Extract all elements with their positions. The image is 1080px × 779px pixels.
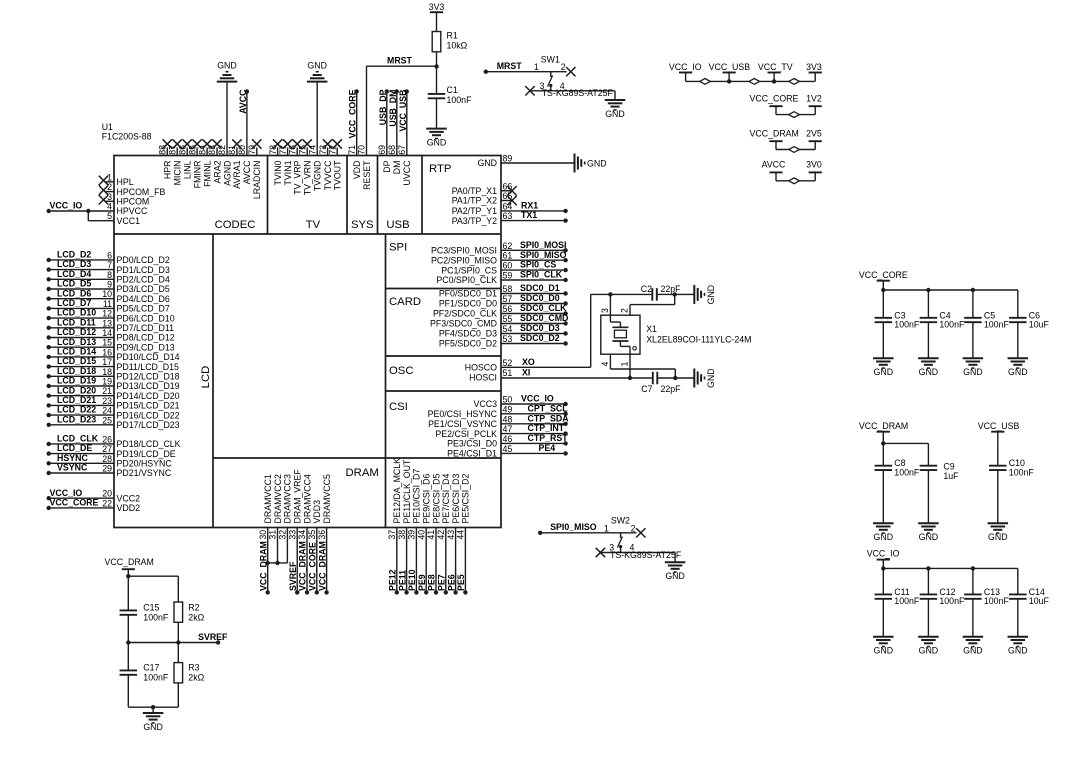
svg-text:DRAM_VREF: DRAM_VREF (293, 469, 303, 524)
svg-text:XL2EL89COI-111YLC-24M: XL2EL89COI-111YLC-24M (646, 334, 751, 344)
svg-text:41: 41 (426, 530, 436, 540)
ground below C1 (426, 129, 447, 148)
svg-text:LCD: LCD (200, 366, 212, 389)
block label TV (306, 219, 321, 231)
pin 23 PD15/LCD_D21 / net LCD_D21 wire (47, 395, 180, 411)
svg-text:PD17/LCD_D23: PD17/LCD_D23 (117, 420, 180, 430)
pin 88 HPR (top) (158, 139, 173, 179)
svg-text:100nF: 100nF (143, 673, 169, 683)
svg-text:DM: DM (392, 161, 402, 175)
svg-text:VCC_CORE: VCC_CORE (750, 93, 799, 103)
svg-text:43: 43 (446, 530, 456, 540)
svg-text:VDD2: VDD2 (117, 503, 141, 513)
svg-text:18: 18 (102, 367, 112, 377)
svg-text:VCC_CORE: VCC_CORE (308, 542, 318, 591)
svg-text:LCD_D14: LCD_D14 (57, 347, 96, 357)
pin 57 PF1/SDC0_D0 (right) (439, 293, 568, 309)
svg-text:PF5/SDC0_D2: PF5/SDC0_D2 (439, 339, 497, 349)
svg-text:AVRA1: AVRA1 (232, 160, 242, 188)
capacitor C8 100nF (875, 443, 920, 523)
svg-text:LCD_D20: LCD_D20 (57, 385, 96, 395)
svg-text:82: 82 (217, 145, 227, 155)
svg-text:57: 57 (503, 294, 513, 304)
svg-text:3: 3 (107, 192, 112, 202)
capacitor C15 100nF (120, 603, 169, 643)
switch SW2 TS-KG89S-AT25F (596, 516, 682, 563)
pin 40 PE9/CSI_D6 (bottom) (416, 474, 431, 595)
svg-text:SPI0_MOSI: SPI0_MOSI (520, 240, 566, 250)
power symbol VCC_IO (tie row) (669, 62, 702, 81)
svg-text:100nF: 100nF (894, 596, 920, 606)
X1 pin 3 wire (600, 294, 610, 315)
svg-text:60: 60 (503, 261, 513, 271)
capacitor C4 100nF (920, 290, 965, 358)
net SVREF wire (126, 632, 228, 645)
pin 26 PD18/LCD_CLK / net LCD_CLK wire (47, 434, 181, 450)
pin 78 TVIN0 (top) (268, 139, 283, 185)
svg-text:FMINL: FMINL (202, 160, 212, 186)
VCC_DRAM rail wire (881, 441, 928, 445)
power symbol VCC_DRAM (divider) (105, 557, 154, 576)
svg-text:SDC0_D3: SDC0_D3 (520, 323, 560, 333)
svg-text:83: 83 (207, 145, 217, 155)
svg-text:LCD_D13: LCD_D13 (57, 337, 96, 347)
svg-text:PA0/TP_X1: PA0/TP_X1 (452, 186, 497, 196)
crystal X1 XL2EL89COI-111YLC-24M (601, 315, 752, 354)
pin 43 PE6/CSI_D3 (bottom) (446, 474, 461, 595)
svg-text:PE4: PE4 (539, 443, 556, 453)
svg-text:54: 54 (503, 324, 513, 334)
net MRST wire from pin 70 to R1/C1 node (367, 56, 437, 67)
svg-text:55: 55 (503, 314, 513, 324)
svg-text:84: 84 (197, 145, 207, 155)
svg-text:71: 71 (347, 145, 357, 155)
svg-text:DRAMVCC2: DRAMVCC2 (273, 474, 283, 523)
pin 53 PF5/SDC0_D2 (right) (439, 333, 568, 349)
svg-text:LRADCIN: LRADCIN (252, 161, 262, 200)
svg-text:3V3: 3V3 (429, 2, 445, 12)
svg-text:CODEC: CODEC (215, 219, 256, 231)
svg-text:49: 49 (503, 404, 513, 414)
svg-text:62: 62 (503, 241, 513, 251)
svg-text:LCD_D4: LCD_D4 (57, 269, 91, 279)
svg-text:PE10: PE10 (407, 569, 417, 591)
svg-text:59: 59 (503, 271, 513, 281)
svg-text:2: 2 (631, 523, 636, 533)
svg-text:VCC_IO: VCC_IO (867, 549, 900, 559)
svg-text:LCD_D7: LCD_D7 (57, 298, 91, 308)
svg-text:LCD_D12: LCD_D12 (57, 327, 96, 337)
svg-text:GND: GND (605, 109, 625, 119)
pin 32 DRAMVCC3 (bottom) (278, 474, 293, 563)
svg-text:VCC_USB: VCC_USB (978, 421, 1020, 431)
power symbol 3V3 (tie row) (806, 62, 822, 81)
svg-text:C7: C7 (641, 384, 652, 394)
svg-text:38: 38 (397, 530, 407, 540)
svg-text:PD8/LCD_D12: PD8/LCD_D12 (117, 333, 175, 343)
wire C1 to ground (436, 98, 438, 128)
svg-text:PD16/LCD_D22: PD16/LCD_D22 (117, 410, 180, 420)
svg-text:VCC1: VCC1 (117, 216, 141, 226)
ground right of C7 (694, 368, 716, 388)
svg-text:USB: USB (386, 219, 409, 231)
power symbol 3V3 (429, 2, 445, 32)
wire VCC_DRAM node to C15 and R2 (126, 574, 178, 610)
svg-text:16: 16 (102, 347, 112, 357)
svg-text:VCC_CORE: VCC_CORE (50, 498, 99, 508)
svg-text:PE9: PE9 (417, 574, 427, 591)
svg-text:TV_VRN: TV_VRN (303, 161, 313, 196)
svg-text:TVOUT: TVOUT (333, 160, 343, 190)
svg-text:RTP: RTP (429, 163, 451, 175)
svg-text:PE2/CSI_PCLK: PE2/CSI_PCLK (435, 429, 497, 439)
svg-text:PE9/CSI_D6: PE9/CSI_D6 (422, 474, 432, 524)
svg-text:U1: U1 (102, 122, 113, 132)
svg-text:DP: DP (382, 160, 392, 172)
svg-text:USB_DP: USB_DP (378, 89, 388, 125)
svg-text:3: 3 (600, 308, 610, 313)
pin 62 PC3/SPI0_MOSI (right) (431, 240, 568, 256)
pin 82 AGND (top) (217, 82, 232, 186)
svg-text:72: 72 (327, 145, 337, 155)
svg-text:PA2/TP_Y1: PA2/TP_Y1 (452, 206, 497, 216)
svg-text:AGND: AGND (222, 161, 232, 186)
svg-text:2: 2 (107, 182, 112, 192)
power symbol VCC_DRAM (tie row 3) (750, 128, 799, 149)
svg-text:AVCC: AVCC (238, 89, 248, 114)
svg-text:6: 6 (107, 250, 112, 260)
pin 13 PD7/LCD_D11 / net LCD_D11 wire (47, 317, 175, 333)
pin 21 PD14/LCD_D20 / net LCD_D20 wire (47, 385, 180, 401)
svg-text:40: 40 (416, 530, 426, 540)
pin 12 PD6/LCD_D10 / net LCD_D10 wire (47, 308, 175, 324)
svg-text:64: 64 (503, 201, 513, 211)
svg-text:R2: R2 (188, 603, 199, 613)
svg-text:GND: GND (874, 646, 894, 656)
pin 54 PF4/SDC0_D3 (right) (439, 323, 568, 339)
svg-text:MRST: MRST (387, 56, 413, 66)
svg-text:21: 21 (102, 386, 112, 396)
pin 15 PD9/LCD_D13 / net LCD_D13 wire (47, 337, 175, 353)
svg-text:GND: GND (307, 60, 327, 70)
capacitor C17 100nF (120, 643, 169, 708)
net SPI0_MISO wire to SW2 pin 1 (538, 522, 637, 535)
bottom wire to ground (divider) (128, 705, 178, 713)
pin 76 TV_VRP (top) (287, 139, 302, 194)
svg-text:42: 42 (436, 530, 446, 540)
pin 1 HPL (99, 172, 134, 187)
svg-text:LCD_D6: LCD_D6 (57, 288, 91, 298)
svg-text:PD9/LCD_D13: PD9/LCD_D13 (117, 342, 175, 352)
svg-text:56: 56 (503, 304, 513, 314)
pin 85 FMINR (top) (187, 139, 202, 188)
svg-text:1: 1 (107, 172, 112, 182)
svg-text:HPCOM: HPCOM (117, 197, 150, 207)
capacitor C2 22pF (641, 284, 681, 301)
block label SPI (389, 242, 407, 254)
pin 79 LRADCIN (top) (247, 139, 262, 199)
pin 2 HPCOM_FB (99, 182, 166, 197)
svg-text:100nF: 100nF (984, 596, 1010, 606)
svg-text:PD14/LCD_D20: PD14/LCD_D20 (117, 391, 180, 401)
svg-text:69: 69 (377, 145, 387, 155)
svg-text:VCC_IO: VCC_IO (50, 488, 83, 498)
svg-text:DRAMVCC5: DRAMVCC5 (322, 474, 332, 523)
svg-text:PF3/SDC0_CMD: PF3/SDC0_CMD (430, 319, 497, 329)
svg-text:VCC_DRAM: VCC_DRAM (298, 541, 308, 591)
svg-text:SDC0_CMD: SDC0_CMD (520, 313, 568, 323)
ground symbol above TVGND pin 74 (307, 60, 328, 81)
svg-text:11: 11 (103, 299, 112, 309)
svg-text:PE5/CSI_D2: PE5/CSI_D2 (461, 474, 471, 524)
svg-text:LCD_D19: LCD_D19 (57, 376, 96, 386)
svg-text:31: 31 (268, 530, 278, 540)
svg-text:VCC_IO: VCC_IO (669, 62, 702, 72)
net MRST wire to SW1 pin 1 (484, 61, 567, 74)
block label LCD rotated (200, 366, 212, 389)
svg-text:22pF: 22pF (661, 384, 682, 394)
capacitor C14 10uF (1009, 568, 1049, 636)
svg-text:22pF: 22pF (661, 284, 682, 294)
pin 51 HOSCI (right) (469, 368, 512, 383)
svg-text:TVIN0: TVIN0 (273, 160, 283, 185)
pin 49 PE0/CSI_HSYNC (right) (428, 403, 569, 419)
block label CODEC (215, 219, 256, 231)
pin 45 PE4/CSI_D1 (right) (447, 443, 568, 459)
svg-text:1: 1 (620, 362, 630, 367)
block label USB (386, 219, 409, 231)
svg-text:75: 75 (297, 145, 307, 155)
svg-text:TS-KG89S-AT25F: TS-KG89S-AT25F (610, 550, 682, 560)
svg-text:LCD_D21: LCD_D21 (57, 395, 96, 405)
svg-text:27: 27 (102, 444, 112, 454)
svg-text:LCD_DE: LCD_DE (57, 443, 92, 453)
svg-text:PD1/LCD_D3: PD1/LCD_D3 (117, 265, 170, 275)
svg-text:SDC0_D0: SDC0_D0 (520, 293, 560, 303)
ground below C5 (963, 358, 984, 377)
pin 41 PE8/CSI_D5 (bottom) (426, 474, 441, 595)
svg-text:17: 17 (102, 357, 112, 367)
capacitor C3 100nF (875, 290, 920, 358)
ground right of C2 (694, 285, 716, 305)
svg-text:100nF: 100nF (984, 320, 1010, 330)
pin 56 PF2/SDC0_CLK (right) (433, 303, 568, 319)
svg-text:PE11/CLK_OUT: PE11/CLK_OUT (402, 459, 412, 524)
ground symbol above AGND pin 82 (217, 60, 238, 81)
svg-text:19: 19 (102, 377, 112, 387)
svg-text:44: 44 (456, 530, 466, 540)
block label SYS (351, 219, 374, 231)
svg-text:7: 7 (107, 260, 112, 270)
pin 67 UVCC (top) (397, 89, 412, 185)
svg-text:CSI: CSI (389, 401, 408, 413)
net-tie bus row 3 with diamond (776, 147, 815, 153)
svg-text:PE3/CSI_D0: PE3/CSI_D0 (447, 439, 497, 449)
svg-text:SPI0_CLK: SPI0_CLK (520, 270, 563, 280)
svg-text:28: 28 (102, 454, 112, 464)
svg-text:1V2: 1V2 (806, 93, 822, 103)
pin 37 PE12/DA_MCLK (bottom) (387, 458, 402, 595)
svg-text:47: 47 (503, 424, 513, 434)
svg-text:PD3/LCD_D5: PD3/LCD_D5 (117, 284, 170, 294)
svg-text:13: 13 (102, 318, 112, 328)
svg-text:R1: R1 (447, 31, 458, 41)
pin 77 TVIN1 (top) (278, 139, 293, 185)
svg-text:PC2/SPI0_MISO: PC2/SPI0_MISO (431, 255, 497, 265)
svg-text:33: 33 (287, 530, 297, 540)
svg-text:8: 8 (107, 270, 112, 280)
svg-text:VCC2: VCC2 (117, 493, 141, 503)
svg-text:74: 74 (307, 145, 317, 155)
svg-text:C15: C15 (143, 603, 159, 613)
svg-text:F1C200S-88: F1C200S-88 (102, 131, 152, 141)
svg-text:100nF: 100nF (1009, 467, 1035, 477)
svg-text:SW1: SW1 (541, 55, 560, 65)
svg-text:20: 20 (102, 489, 112, 499)
pin 73 TVVCC (top) (318, 139, 333, 190)
svg-text:88: 88 (158, 145, 168, 155)
pin 65 PA1/TP_X2 (right) (452, 191, 517, 206)
pin 34 DRAMVCC4 (bottom) (297, 474, 312, 595)
pin 61 PC2/SPI0_MISO (right) (431, 250, 568, 266)
power symbol VCC_DRAM (859, 421, 908, 444)
pin 11 PD5/LCD_D7 / net LCD_D7 wire (47, 298, 170, 314)
svg-text:30: 30 (258, 530, 268, 540)
X1 pin 1 wire (620, 354, 630, 378)
svg-text:VCC_USB: VCC_USB (398, 90, 408, 132)
capacitor C9 1uF (920, 443, 960, 523)
svg-text:VCC_DRAM: VCC_DRAM (859, 421, 908, 431)
svg-text:LCD_D18: LCD_D18 (57, 366, 96, 376)
power symbol 1V2 (tie row 2) (806, 93, 822, 114)
svg-text:32: 32 (278, 530, 288, 540)
svg-text:PC0/SPI0_CLK: PC0/SPI0_CLK (436, 275, 497, 285)
capacitor C13 100nF (964, 568, 1009, 636)
net-tie bus row 4 with diamond (776, 178, 815, 184)
power symbol VCC_CORE (tie row 2) (750, 93, 799, 114)
wire R1 to C1 with MRST junction (434, 52, 438, 94)
svg-text:SPI0_MISO: SPI0_MISO (550, 522, 597, 532)
svg-text:AVCC: AVCC (242, 160, 252, 184)
svg-text:25: 25 (102, 415, 112, 425)
power symbol 3V0 (tie row 4) (806, 160, 822, 181)
svg-text:TX1: TX1 (521, 210, 537, 220)
svg-text:1: 1 (604, 523, 609, 533)
svg-text:LCD_D11: LCD_D11 (57, 317, 96, 327)
svg-text:CTP_SDA: CTP_SDA (528, 413, 570, 423)
svg-text:4: 4 (600, 362, 610, 367)
pin 44 PE5/CSI_D2 (bottom) (456, 474, 471, 595)
svg-text:34: 34 (297, 530, 307, 540)
svg-text:DRAM: DRAM (346, 467, 379, 479)
svg-text:100nF: 100nF (939, 596, 965, 606)
svg-text:VCC_CORE: VCC_CORE (859, 270, 908, 280)
ground below C6 (1008, 358, 1029, 377)
svg-text:61: 61 (503, 251, 513, 261)
block label RTP (429, 163, 451, 175)
svg-text:PD15/LCD_D21: PD15/LCD_D21 (117, 401, 180, 411)
capacitor C10 100nF (989, 443, 1034, 523)
ground below C12 (918, 637, 939, 656)
svg-text:70: 70 (357, 145, 367, 155)
ground below divider (143, 713, 164, 732)
pin 3 HPCOM (99, 192, 149, 207)
svg-text:89: 89 (503, 154, 513, 164)
pin 71 VDD (top) (347, 89, 362, 179)
pin 4 HPVCC (107, 202, 148, 217)
svg-text:100nF: 100nF (143, 613, 169, 623)
svg-text:VCC_DRAM: VCC_DRAM (750, 128, 799, 138)
svg-text:PF2/SDC0_CLK: PF2/SDC0_CLK (433, 309, 497, 319)
pin 16 PD10/LCD_D14 / net LCD_D14 wire (47, 347, 180, 363)
svg-text:GND: GND (587, 158, 607, 168)
svg-text:26: 26 (102, 434, 112, 444)
svg-text:77: 77 (278, 145, 288, 155)
svg-text:GND: GND (706, 285, 716, 305)
ground symbol at pin 89 (575, 154, 607, 173)
svg-text:46: 46 (503, 434, 513, 444)
svg-text:SDC0_CLK: SDC0_CLK (520, 303, 567, 313)
X1 pin 2 wire (620, 294, 675, 315)
svg-text:GND: GND (1008, 367, 1028, 377)
svg-text:100nF: 100nF (939, 320, 965, 330)
pin 20 VCC2 / net VCC_IO wire (47, 488, 141, 504)
svg-text:VCC_TV: VCC_TV (758, 62, 793, 72)
svg-text:TVVCC: TVVCC (323, 160, 333, 190)
ground below C9 (918, 523, 939, 542)
pin 17 PD11/LCD_D15 / net LCD_D15 wire (47, 356, 180, 372)
svg-text:TV: TV (306, 219, 321, 231)
svg-text:MRST: MRST (497, 61, 523, 71)
pin 5 VCC1 (107, 211, 140, 226)
power symbol VCC_CORE (859, 270, 908, 290)
svg-text:76: 76 (287, 145, 297, 155)
svg-text:5: 5 (107, 211, 112, 221)
svg-text:ARA2: ARA2 (212, 160, 222, 183)
svg-text:LCD_D2: LCD_D2 (57, 250, 91, 260)
pin 10 PD4/LCD_D6 / net LCD_D6 wire (47, 288, 170, 304)
block label DRAM (346, 467, 379, 479)
svg-text:LCD_D5: LCD_D5 (57, 279, 91, 289)
svg-text:SW2: SW2 (611, 516, 630, 526)
net-tie bus row 1 with diamonds (686, 79, 816, 85)
svg-text:GND: GND (874, 532, 894, 542)
svg-text:80: 80 (237, 145, 247, 155)
block label CSI (389, 401, 408, 413)
svg-text:SPI: SPI (389, 242, 407, 254)
svg-text:2: 2 (620, 308, 630, 313)
power symbol VCC_IO (867, 549, 900, 569)
svg-text:PF1/SDC0_D0: PF1/SDC0_D0 (439, 299, 497, 309)
svg-text:PE6/CSI_D3: PE6/CSI_D3 (451, 474, 461, 524)
svg-text:PD18/LCD_CLK: PD18/LCD_CLK (117, 439, 181, 449)
IC U1 body outline (114, 156, 501, 528)
svg-text:100nF: 100nF (447, 95, 473, 105)
svg-text:10: 10 (102, 289, 112, 299)
pin 42 PE7/CSI_D4 (bottom) (436, 474, 451, 595)
svg-text:100nF: 100nF (894, 467, 920, 477)
svg-text:PD21/VSYNC: PD21/VSYNC (117, 468, 172, 478)
svg-text:81: 81 (227, 145, 237, 155)
svg-text:CPT_SCL: CPT_SCL (528, 403, 569, 413)
svg-text:15: 15 (102, 338, 112, 348)
svg-text:39: 39 (407, 530, 417, 540)
svg-text:3V3: 3V3 (806, 62, 822, 72)
svg-text:PE12/DA_MCLK: PE12/DA_MCLK (392, 458, 402, 524)
svg-text:SDC0_D2: SDC0_D2 (520, 333, 560, 343)
svg-text:PC1/SPI0_CS: PC1/SPI0_CS (441, 265, 497, 275)
svg-text:36: 36 (317, 530, 327, 540)
